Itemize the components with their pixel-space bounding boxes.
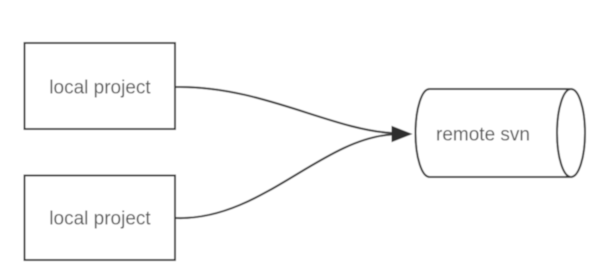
box local project 1 (25, 43, 176, 129)
wire edge 1 (176, 87, 392, 133)
svg-text:local project: local project (49, 78, 151, 99)
cylinder remote svn (416, 89, 585, 177)
wire edge 2 (176, 135, 392, 219)
svg-text:local project: local project (49, 209, 151, 230)
box local project 2 (25, 176, 176, 261)
arrowhead (392, 126, 413, 142)
svg-text:remote svn: remote svn (436, 125, 530, 146)
